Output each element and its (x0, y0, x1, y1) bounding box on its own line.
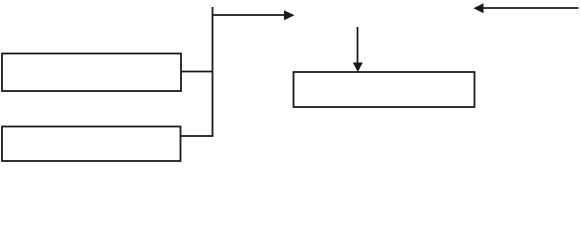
box middle (294, 72, 475, 107)
box left-top (2, 54, 181, 92)
box left-bottom (2, 127, 181, 162)
arrow down into middle box (353, 27, 363, 72)
wire connector box1 to trunk (181, 71, 213, 73)
arrow left at top right (474, 3, 579, 13)
wire connector box2 to trunk (181, 135, 214, 137)
arrow right from trunk (213, 10, 295, 20)
wire vertical trunk (212, 7, 214, 137)
